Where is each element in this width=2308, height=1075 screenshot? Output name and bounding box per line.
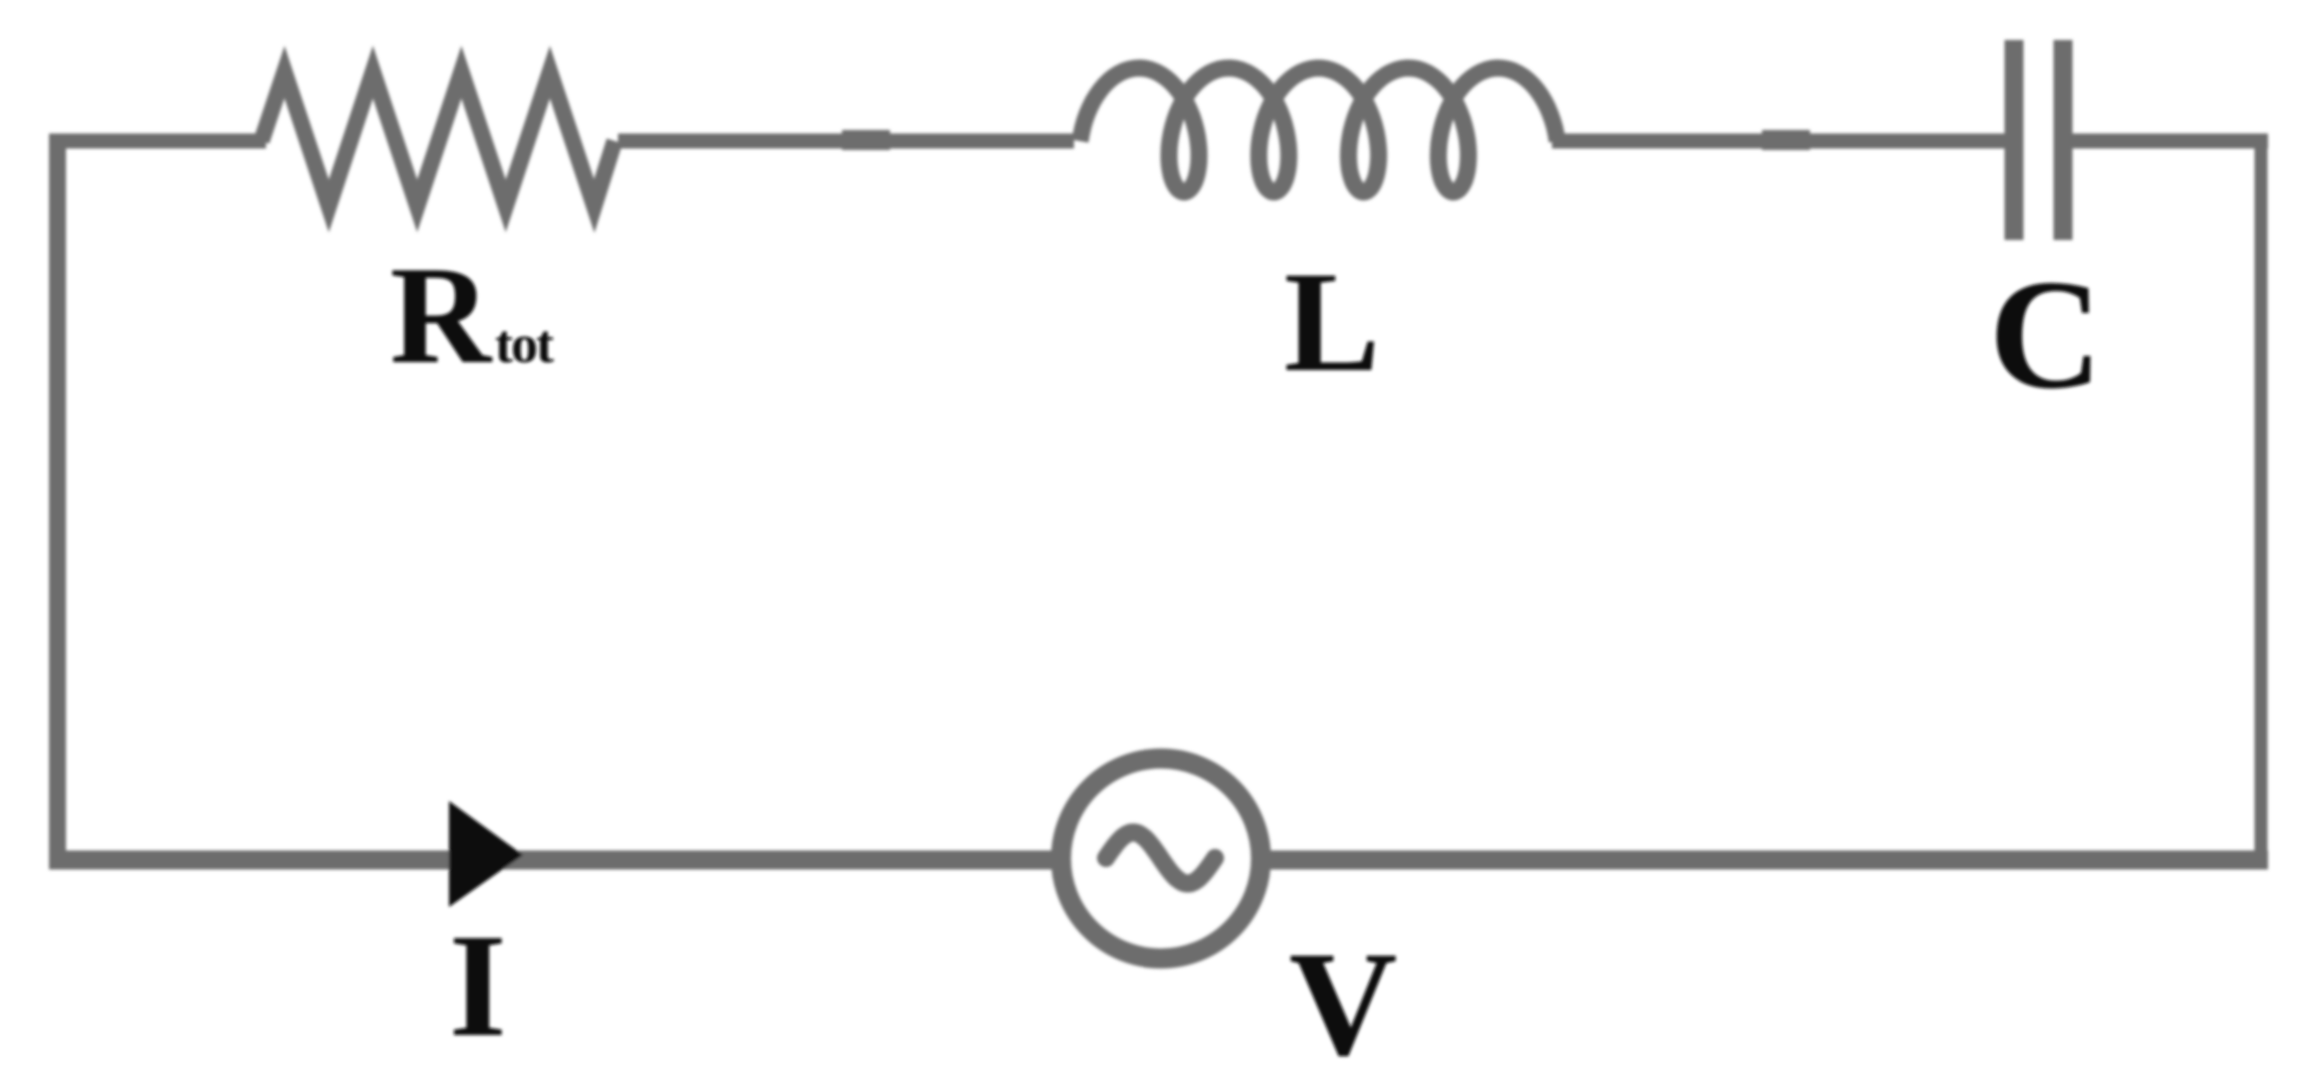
resistor Rtot zigzag	[262, 72, 615, 206]
wire bottom right segment	[1269, 851, 2268, 870]
svg-text:R: R	[390, 238, 493, 393]
wire splice overlap 1	[842, 130, 890, 150]
svg-text:L: L	[1284, 243, 1380, 402]
svg-text:I: I	[449, 904, 507, 1068]
svg-text:tot: tot	[495, 314, 554, 374]
wire right vertical	[2255, 134, 2268, 867]
wire top-middle segment 1 (resistor to inductor)	[618, 134, 1074, 149]
wire top-middle segment 2 (inductor to capacitor)	[1552, 134, 2006, 149]
svg-text:V: V	[1289, 921, 1397, 1075]
wire splice overlap 2	[1762, 130, 1810, 150]
wire top-right horizontal	[2072, 134, 2268, 149]
wire left vertical	[49, 134, 66, 867]
capacitor C left plate	[2005, 40, 2024, 240]
current arrow I	[449, 801, 523, 907]
inductor L coil	[1080, 68, 1557, 192]
svg-text:C: C	[1989, 247, 2102, 421]
wire top-left horizontal	[49, 134, 266, 149]
AC source V circle	[1061, 759, 1261, 959]
capacitor C right plate	[2054, 40, 2073, 240]
AC source sine symbol	[1106, 833, 1215, 884]
wire bottom left segment	[49, 851, 1053, 870]
